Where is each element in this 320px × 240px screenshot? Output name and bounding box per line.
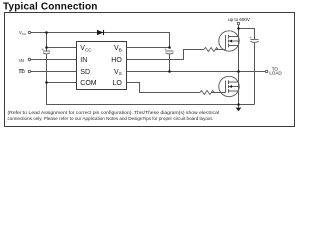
svg-text:COM: COM (80, 80, 97, 87)
svg-text:LOAD: LOAD (269, 71, 282, 76)
svg-text:connections only. Please refe: connections only. Please refer to our Ap… (8, 116, 214, 121)
svg-text:Typical Connection: Typical Connection (3, 2, 98, 13)
svg-text:IN: IN (80, 57, 87, 64)
svg-text:up to 600V: up to 600V (228, 17, 250, 22)
svg-text:HO: HO (111, 57, 122, 64)
svg-text:(Refer to Lead Assignment for: (Refer to Lead Assignment for correct pi… (8, 110, 220, 115)
svg-text:SD: SD (80, 69, 90, 76)
svg-text:LO: LO (112, 80, 122, 87)
svg-text:IN: IN (19, 58, 24, 63)
svg-text:SD: SD (19, 69, 26, 74)
